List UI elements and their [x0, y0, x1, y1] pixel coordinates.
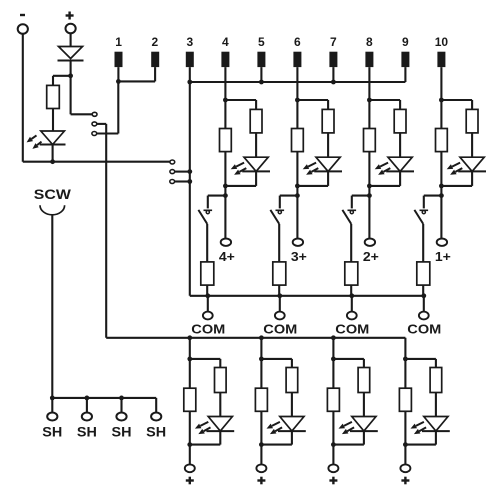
wire t2 down [154, 67, 156, 81]
wire SH1 stub [51, 398, 53, 413]
wire 3+ right branch [297, 99, 328, 101]
wire channel 4+ vertical [224, 67, 226, 238]
junction lower ch4 top [403, 357, 408, 362]
junction 1+ COM bus [421, 293, 426, 298]
jumper contact E [170, 170, 175, 174]
resistor 1+ output [417, 262, 430, 285]
LED 3+ [316, 157, 340, 171]
wire 4+ right branch [225, 99, 256, 101]
terminal plus [66, 24, 76, 34]
junction lower ch1 top [187, 357, 192, 362]
wire minus down [22, 34, 24, 162]
svg-text:4: 4 [222, 35, 229, 49]
wire terminal3 bus vertical [189, 67, 191, 296]
junction 1+ top [439, 98, 444, 103]
terminal 6 [293, 52, 301, 67]
wire to jumper A [71, 113, 93, 115]
wire 1+ LED down [471, 171, 473, 186]
wire lower ch1 LED return [190, 444, 221, 446]
terminal minus [18, 24, 28, 34]
SH bus [52, 397, 156, 399]
odd terminal bus [190, 81, 406, 83]
jumper contact D [170, 160, 175, 164]
resistor 4+ input [250, 109, 262, 132]
wire 1+ right branch [441, 99, 472, 101]
LED lower ch3 [352, 417, 376, 432]
svg-text:3+: 3+ [291, 250, 307, 264]
wire 3+ R to LED [327, 133, 329, 157]
terminal SH2 [82, 413, 92, 421]
wire channel 1+ vertical [440, 67, 442, 238]
wire lower ch1 LED down [219, 431, 221, 445]
junction 3+ mid [295, 184, 300, 189]
junction 3+ COM bus [277, 293, 282, 298]
svg-text:COM: COM [191, 321, 225, 336]
wire t7 down [332, 67, 334, 82]
wire lower ch1 into R [219, 359, 221, 368]
resistor 3+ output [273, 262, 286, 285]
terminal 10 [437, 52, 445, 67]
wire t1-t2 join [118, 80, 155, 82]
terminal 3 [186, 52, 194, 67]
wire 4+ below switch [206, 224, 208, 262]
terminal COM 3 [275, 312, 285, 320]
junction lower ch1 bottom [187, 442, 192, 447]
junction t5 bus [259, 80, 264, 85]
terminal lower ch3 plus [328, 464, 338, 472]
wire lower ch3 R to LED [363, 393, 365, 417]
wire into R1 [52, 76, 54, 86]
LED 4+ [244, 157, 268, 171]
svg-text:COM: COM [263, 321, 297, 336]
junction t1-t2 [116, 79, 121, 84]
wire R1 to LED1 [52, 109, 54, 132]
svg-text:3: 3 [186, 35, 193, 49]
wire 2+ into R [399, 100, 401, 109]
resistor 2+ input [394, 109, 406, 132]
wire 2+ to COM bus [350, 285, 352, 296]
wire lower ch4 vertical [404, 338, 406, 465]
wire channel 3+ vertical [296, 67, 298, 238]
wire SCW to SH bus [51, 215, 53, 398]
terminal lower ch2 plus [256, 464, 266, 472]
wire lower ch1 right branch [190, 358, 221, 360]
terminal COM 2 [347, 312, 357, 320]
LED lower ch4 [424, 417, 448, 432]
wire 4+ LED down [255, 171, 257, 186]
resistor 3+ input [322, 109, 334, 132]
wire 4+ switch drop [207, 196, 209, 209]
junction minus rail [50, 159, 55, 164]
LED D2 power [41, 131, 65, 145]
LED lower ch1 [208, 417, 232, 432]
junction SH3 [119, 396, 124, 401]
wire lower ch4 LED return [405, 444, 436, 446]
terminal 7 [329, 52, 337, 67]
wire 3+ to COM bus [278, 285, 280, 296]
junction lower ch2 bus [259, 335, 264, 340]
wire lower ch1 vertical [189, 338, 191, 465]
junction diode node [68, 73, 73, 78]
resistor 1+ shunt [436, 129, 448, 152]
junction lower ch2 bottom [259, 442, 264, 447]
resistor lower ch4 input [430, 368, 442, 393]
lower shield bus [106, 337, 405, 339]
wire B down to lower bus [105, 124, 107, 338]
wire 3+ to switch [280, 195, 298, 197]
wire lower ch3 vertical [332, 338, 334, 465]
junction 1+ switch tap [439, 193, 444, 198]
svg-text:SH: SH [112, 424, 132, 440]
wire LED1 down [52, 145, 54, 162]
wire 2+ COM stub [351, 296, 353, 312]
junction 2+ switch tap [367, 193, 372, 198]
shield clamp SCW arc [40, 205, 65, 215]
switch S2 contact [348, 209, 357, 211]
wire node left [53, 75, 71, 77]
wire E right [175, 171, 190, 173]
junction 4+ COM bus [205, 293, 210, 298]
wire 3+ switch drop [279, 196, 281, 209]
terminal SH3 [116, 413, 126, 421]
svg-text:SH: SH [77, 424, 97, 440]
junction lower ch3 bus [331, 335, 336, 340]
resistor lower ch4 shunt [399, 388, 411, 411]
label lower ch3 plus [329, 479, 337, 481]
terminal lower ch1 plus [185, 464, 195, 472]
wire lower ch2 into R [291, 359, 293, 368]
junction 2+ mid [367, 184, 372, 189]
junction 1+ mid [439, 184, 444, 189]
junction lower ch4 bottom [403, 442, 408, 447]
svg-text:5: 5 [258, 35, 265, 49]
wire F right [175, 180, 190, 182]
switch S3 blade [270, 210, 279, 224]
wire 3+ COM stub [279, 296, 281, 312]
switch S1 contact [420, 209, 429, 211]
junction 4+ switch tap [223, 193, 228, 198]
wire 4+ COM stub [207, 296, 209, 312]
terminal 4 [221, 52, 229, 67]
wire SH2 stub [86, 398, 88, 413]
wire 1+ LED return [441, 185, 472, 187]
wire lower ch2 R to LED [291, 393, 293, 417]
wire 1+ R to LED [471, 133, 473, 157]
wire lower ch4 into R [435, 359, 437, 368]
LED 2+ [388, 157, 412, 171]
wire node down [70, 76, 72, 115]
terminal SH1 [47, 413, 57, 421]
wire SH4 stub [155, 398, 157, 413]
wire 1+ to COM bus [422, 285, 424, 296]
wire 3+ below switch [278, 224, 280, 262]
terminal 5 [257, 52, 265, 67]
resistor 2+ shunt [364, 129, 376, 152]
terminal COM 4 [203, 312, 213, 320]
label plus [66, 14, 74, 16]
resistor lower ch2 shunt [255, 388, 267, 411]
wire lower ch3 right branch [333, 358, 364, 360]
wire 1+ switch drop [423, 196, 425, 209]
junction 4+ top [223, 98, 228, 103]
junction 2+ top [367, 98, 372, 103]
svg-text:SH: SH [146, 424, 166, 440]
terminal 1 [115, 52, 123, 67]
LED 1+ [460, 157, 484, 171]
wire lower ch1 R to LED [219, 393, 221, 417]
wire 2+ to switch [352, 195, 370, 197]
wire t5 down [260, 67, 262, 82]
junction 4+ mid [223, 184, 228, 189]
svg-text:9: 9 [402, 35, 409, 49]
junction lower ch3 top [331, 357, 336, 362]
svg-text:10: 10 [435, 35, 449, 49]
wire 4+ R to LED [255, 133, 257, 157]
terminal 4+ [221, 239, 231, 246]
wire 4+ to COM bus [206, 285, 208, 296]
wire 1+ to switch [424, 195, 442, 197]
resistor 4+ output [201, 262, 214, 285]
wire plus to diode [70, 33, 72, 46]
wire lower ch4 R to LED [435, 393, 437, 417]
wire t1 down [117, 67, 119, 81]
resistor 3+ shunt [292, 129, 304, 152]
wire 2+ R to LED [399, 133, 401, 157]
terminal lower ch4 plus [400, 464, 410, 472]
wire channel 2+ vertical [368, 67, 370, 238]
junction lower ch2 top [259, 357, 264, 362]
switch S4 contact [204, 209, 213, 211]
wire 1+ into R [471, 100, 473, 109]
switch S3 contact [276, 209, 285, 211]
wire t9 down [404, 67, 406, 82]
svg-text:1: 1 [115, 35, 122, 49]
wire 2+ below switch [350, 224, 352, 262]
wire lower ch3 into R [363, 359, 365, 368]
wire minus rail [23, 161, 170, 163]
wire diode to node [70, 61, 72, 76]
wire C up to t12 node [117, 81, 119, 133]
wire 3+ into R [327, 100, 329, 109]
switch S1 blade [414, 210, 423, 224]
junction SH1 [50, 396, 55, 401]
svg-text:SH: SH [42, 424, 62, 440]
switch S2 blade [342, 210, 351, 224]
wire 4+ to switch [208, 195, 226, 197]
svg-text:2: 2 [152, 35, 159, 49]
wire lower ch4 right branch [405, 358, 436, 360]
resistor lower ch1 input [215, 368, 227, 393]
jumper contact A [92, 112, 97, 116]
svg-text:8: 8 [366, 35, 373, 49]
wire 2+ switch drop [351, 196, 353, 209]
junction 3+ switch tap [295, 193, 300, 198]
LED lower ch2 [280, 417, 304, 432]
switch S4 blade [198, 210, 207, 224]
diode D1 [59, 47, 83, 59]
terminal 9 [401, 52, 409, 67]
label lower ch4 plus [401, 479, 409, 481]
COM bus [190, 295, 424, 297]
wire C right [97, 132, 119, 134]
junction t3 bus [187, 80, 192, 85]
svg-text:6: 6 [294, 35, 301, 49]
wire 3+ LED down [327, 171, 329, 186]
wire lower ch4 LED down [435, 431, 437, 445]
terminal COM 1 [419, 312, 429, 320]
jumper contact F [170, 180, 175, 184]
wire lower ch2 LED return [261, 444, 292, 446]
resistor lower ch2 input [286, 368, 298, 393]
svg-text:COM: COM [335, 321, 369, 336]
resistor lower ch1 shunt [184, 388, 196, 411]
svg-text:2+: 2+ [363, 250, 379, 264]
junction t7 bus [331, 80, 336, 85]
wire lower ch2 vertical [260, 338, 262, 465]
label minus [20, 14, 25, 16]
terminal SH4 [151, 413, 161, 421]
wire lower ch3 LED down [363, 431, 365, 445]
resistor 1+ input [466, 109, 478, 132]
wire 1+ below switch [422, 224, 424, 262]
resistor 4+ shunt [220, 129, 232, 152]
junction F bus [187, 179, 192, 184]
junction lower ch1 bus [187, 335, 192, 340]
junction E bus [187, 169, 192, 174]
svg-text:7: 7 [330, 35, 337, 49]
wire 4+ into R [255, 100, 257, 109]
label lower ch2 plus [257, 479, 265, 481]
wire 2+ LED return [369, 185, 400, 187]
wire lower ch2 LED down [291, 431, 293, 445]
svg-text:1+: 1+ [435, 250, 451, 264]
junction 2+ COM bus [349, 293, 354, 298]
resistor lower ch3 shunt [327, 388, 339, 411]
wire 2+ LED down [399, 171, 401, 186]
terminal 3+ [293, 239, 303, 246]
terminal 8 [365, 52, 373, 67]
svg-text:COM: COM [407, 321, 441, 336]
svg-text:SCW: SCW [34, 186, 72, 202]
resistor 2+ output [345, 262, 358, 285]
terminal 2+ [365, 239, 375, 246]
wire 2+ right branch [369, 99, 400, 101]
wire lower ch2 right branch [261, 358, 292, 360]
wire 1+ COM stub [423, 296, 425, 312]
junction SH2 [85, 396, 90, 401]
wire 4+ LED return [225, 185, 256, 187]
wire SH3 stub [120, 398, 122, 413]
svg-text:4+: 4+ [219, 250, 235, 264]
resistor lower ch3 input [358, 368, 370, 393]
wire 3+ LED return [297, 185, 328, 187]
terminal 1+ [437, 239, 447, 246]
wire B right [97, 123, 106, 125]
wire lower ch3 LED return [333, 444, 364, 446]
terminal 2 [151, 52, 159, 67]
junction 3+ top [295, 98, 300, 103]
resistor R1 [47, 85, 60, 108]
jumper contact C [92, 132, 97, 136]
jumper contact B [92, 122, 97, 126]
label lower ch1 plus [186, 479, 194, 481]
junction lower ch3 bottom [331, 442, 336, 447]
